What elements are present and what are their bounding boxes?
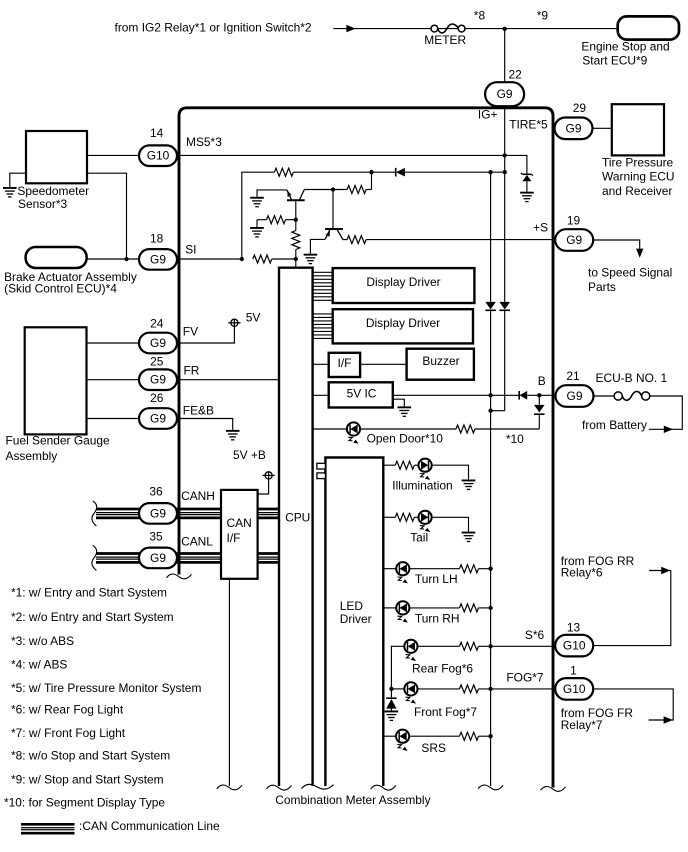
wire CAN I/F down to bottom break: [228, 579, 230, 786]
svg-text:TIRE*5: TIRE*5: [509, 117, 548, 131]
svg-text:+S: +S: [533, 221, 548, 235]
ground illumination: [462, 480, 476, 489]
svg-text:CANL: CANL: [181, 534, 213, 548]
svg-text:I/F: I/F: [338, 356, 352, 370]
svg-text:Sensor*3: Sensor*3: [18, 197, 67, 211]
resistor turn RH: [460, 604, 479, 612]
LED tail: [419, 511, 432, 532]
engine stop ECU box: [618, 16, 679, 39]
arrow from battery: [664, 426, 673, 433]
wire SI left riser to R1: [242, 172, 275, 259]
arrow to speed signal parts: [636, 249, 643, 258]
svg-text:Turn RH: Turn RH: [415, 611, 460, 625]
ribbon wires CPU to display driver 1: [313, 272, 333, 300]
wire turn LH row: [383, 568, 396, 570]
wire Q2 collector to +S resistor: [343, 239, 347, 241]
break CANH left: [92, 501, 97, 526]
wire R3 vertical leads: [295, 220, 297, 231]
LED illumination: [419, 459, 432, 480]
svg-text:19: 19: [567, 213, 581, 227]
CAN bus CANL: [96, 554, 279, 563]
svg-text:26: 26: [150, 391, 164, 405]
svg-text:1: 1: [570, 664, 577, 678]
svg-text:*3: w/o ABS: *3: w/o ABS: [11, 634, 74, 648]
svg-text:29: 29: [573, 101, 587, 115]
svg-text:25: 25: [150, 354, 164, 368]
node FOG*7: [488, 687, 492, 691]
wire CPU to I/F: [313, 363, 329, 365]
svg-text:Combination Meter Assembly: Combination Meter Assembly: [275, 793, 430, 807]
svg-text:*2: w/o Entry and Start System: *2: w/o Entry and Start System: [11, 610, 174, 624]
svg-text:35: 35: [149, 530, 163, 544]
LED turn LH: [396, 562, 409, 583]
brake actuator assembly box: [26, 247, 87, 268]
ground Q2 emitter: [304, 255, 318, 264]
wire 490 vertical: [490, 172, 492, 302]
node diode line x collector riser: [369, 170, 373, 174]
resistor R2: [267, 216, 286, 224]
ground tail: [462, 533, 476, 542]
resistor front fog: [460, 685, 479, 693]
svg-text:(Skid Control ECU)*4: (Skid Control ECU)*4: [4, 282, 117, 296]
arrow from FOG RR relay: [661, 567, 670, 574]
wire 5V +B to CAN I/F: [258, 472, 269, 494]
svg-text:Parts: Parts: [588, 280, 616, 294]
connector G9-24: [139, 333, 177, 354]
svg-text:18: 18: [150, 231, 164, 245]
wire fog RR relay to G10-13: [593, 571, 671, 646]
svg-text:Tail: Tail: [410, 530, 428, 544]
svg-text:FE&B: FE&B: [183, 404, 214, 418]
svg-text:13: 13: [567, 620, 581, 634]
break bottom CPU right + LED left edges: [302, 784, 334, 789]
node turn RH: [488, 606, 492, 610]
wire CPU to 5V IC: [313, 394, 329, 396]
svg-text:CANH: CANH: [181, 489, 215, 503]
ground R2: [250, 228, 264, 237]
transistor Q1: [287, 190, 305, 220]
svg-text:G9: G9: [150, 336, 166, 350]
wire FV: [87, 326, 235, 343]
fuse ECU-B NO.1: [614, 391, 650, 400]
svg-text:Front Fog*7: Front Fog*7: [414, 705, 477, 719]
resistor R3 vertical: [292, 231, 300, 250]
svg-text:Driver: Driver: [340, 612, 372, 626]
svg-text:Assembly: Assembly: [6, 449, 58, 463]
display driver box 1: [333, 268, 475, 303]
speedometer sensor box: [26, 131, 87, 183]
svg-text:Start ECU*9: Start ECU*9: [582, 53, 647, 67]
diode on B line pointing left: [519, 391, 527, 400]
ground front fog: [385, 711, 399, 720]
wire front fog diode branch: [390, 689, 392, 698]
svg-text:Illumination: Illumination: [392, 479, 452, 493]
svg-text:Fuel Sender Gauge: Fuel Sender Gauge: [6, 434, 111, 448]
svg-text:B: B: [538, 374, 546, 388]
resistor rear fog: [460, 642, 479, 650]
wire fuse to battery arrow: [649, 396, 683, 429]
connector G9-25: [139, 369, 177, 390]
wire speedometer lower to SI line: [87, 173, 127, 259]
svg-text:*7: w/ Front Fog Light: *7: w/ Front Fog Light: [11, 726, 126, 740]
CAN I/F box: [221, 490, 258, 579]
wire rear fog row: [391, 646, 404, 689]
svg-text:*10: for Segment Display Type: *10: for Segment Display Type: [4, 795, 165, 809]
break on main box right edge bottom: [541, 787, 566, 792]
resistor tail: [395, 513, 414, 521]
svg-text:to Speed Signal: to Speed Signal: [588, 266, 672, 280]
display driver box 2: [333, 309, 473, 343]
wire jog joining verticals: [491, 410, 505, 412]
svg-text:*5: w/ Tire Pressure Monitor S: *5: w/ Tire Pressure Monitor System: [11, 681, 201, 695]
5V +B supply symbol: [265, 472, 272, 479]
resistor open door: [456, 425, 475, 433]
svg-text:*9: *9: [537, 9, 549, 23]
node SI x left riser: [240, 257, 244, 261]
svg-text:Turn LH: Turn LH: [415, 572, 458, 586]
wire G10-1 to fog FR relay: [593, 689, 673, 720]
svg-text:G9: G9: [497, 87, 513, 101]
CAN bus CANH: [96, 509, 279, 518]
svg-text:*9: w/ Stop and Start System: *9: w/ Stop and Start System: [11, 772, 164, 786]
resistor turn LH: [460, 565, 479, 573]
break bottom LED driver right edge: [371, 785, 396, 790]
connector G9-26: [139, 408, 177, 429]
wire R1 to diode to IG+ vertical: [293, 171, 395, 173]
main box combination meter boundary: [179, 108, 553, 788]
svg-text:IG+: IG+: [478, 108, 498, 122]
svg-text:*8: w/o Stop and Start System: *8: w/o Stop and Start System: [11, 748, 170, 762]
connector G9-35: [139, 548, 177, 569]
I/F box: [329, 353, 360, 377]
diode down open door branch: [534, 405, 545, 414]
svg-text:from IG2 Relay*1 or Ignition S: from IG2 Relay*1 or Ignition Switch*2: [115, 20, 312, 34]
break bottom CPU left edge: [267, 785, 292, 790]
wire open door row: [313, 428, 347, 430]
svg-text:5V IC: 5V IC: [347, 386, 377, 400]
svg-text:Warning ECU: Warning ECU: [602, 170, 675, 184]
break bottom 490 vertical: [478, 785, 503, 790]
svg-text:5V +B: 5V +B: [233, 448, 266, 462]
break bottom CAN wire: [217, 785, 242, 790]
resistor illumination: [395, 461, 414, 469]
fuse METER: [431, 24, 465, 33]
node MS5 x IG+: [503, 153, 507, 157]
wire Q2 emitter to ground: [310, 239, 325, 253]
svg-text:FV: FV: [183, 325, 198, 339]
node S*6: [488, 644, 492, 648]
wire SRS row: [383, 735, 396, 737]
svg-text:G9: G9: [150, 412, 166, 426]
svg-text:FR: FR: [184, 363, 200, 377]
resistor Q1 collector: [347, 186, 366, 194]
svg-text:*1: w/ Entry and Start System: *1: w/ Entry and Start System: [11, 585, 167, 599]
node diode line x 490 vertical: [488, 170, 492, 174]
svg-text:Open Door*10: Open Door*10: [367, 431, 444, 445]
svg-text:*8: *8: [474, 9, 486, 23]
svg-text:G9: G9: [150, 252, 166, 266]
svg-text:CAN: CAN: [227, 516, 252, 530]
resistor Q2 +S: [347, 236, 366, 244]
ground zener: [520, 193, 534, 202]
wire speedometer to ground: [10, 173, 26, 187]
svg-text:22: 22: [509, 67, 523, 81]
connector G9-29: [555, 118, 593, 140]
ground 5V IC: [398, 407, 412, 416]
tire pressure warning ECU box: [612, 104, 664, 155]
wire Q1 collector line: [304, 189, 347, 191]
svg-text:Tire Pressure: Tire Pressure: [602, 155, 674, 169]
svg-text:G9: G9: [150, 506, 166, 520]
break CANL left: [92, 545, 97, 570]
arrow from FOG FR relay: [664, 716, 673, 723]
zener diode TIRE to ground: [521, 173, 533, 192]
wire turn RH row: [383, 607, 396, 609]
svg-text:36: 36: [149, 484, 163, 498]
wire from IG2 relay top line: [333, 28, 617, 30]
ground Q1 emitter: [250, 198, 264, 207]
connector G10-14: [139, 145, 177, 166]
svg-text:Speedometer: Speedometer: [17, 184, 89, 198]
svg-text:and Receiver: and Receiver: [602, 184, 672, 198]
wire speedometer to G10-14: [87, 154, 177, 156]
svg-text:G10: G10: [147, 149, 170, 163]
CPU box: [279, 268, 313, 786]
svg-text::CAN Communication Line: :CAN Communication Line: [79, 819, 220, 833]
wire 5V IC to ground: [393, 399, 405, 406]
svg-text:FOG*7: FOG*7: [506, 671, 544, 685]
transistor Q2: [325, 229, 343, 240]
node Q1 base: [294, 218, 298, 222]
wire front fog row: [391, 688, 404, 690]
wire IG+ vertical from top line to G9-22: [504, 29, 506, 84]
node Q1 collector: [331, 187, 335, 191]
connector G9-18: [139, 249, 177, 270]
svg-text:21: 21: [566, 369, 580, 383]
node diode line x IG+: [503, 170, 507, 174]
svg-text:ECU-B NO. 1: ECU-B NO. 1: [596, 371, 668, 385]
wire R4 to base node: [272, 258, 296, 260]
wire G9-21 to fuse ECU-B: [594, 395, 615, 397]
wire FE&B: [87, 419, 233, 430]
svg-text:Rear Fog*6: Rear Fog*6: [412, 661, 473, 675]
node SI x R3: [294, 257, 298, 261]
wire SI from brake actuator: [87, 258, 242, 260]
LED front fog: [404, 682, 417, 703]
wire FR: [87, 379, 280, 381]
svg-text:14: 14: [150, 126, 164, 140]
resistor R4 on SI line: [253, 255, 272, 263]
connector G10-13: [555, 635, 593, 657]
wire tail row: [383, 516, 395, 518]
svg-text:24: 24: [150, 317, 164, 331]
ground FE&B: [226, 431, 240, 440]
connector G9-19: [555, 229, 593, 251]
node jog junction: [488, 409, 492, 413]
svg-text:Display Driver: Display Driver: [366, 275, 440, 289]
svg-text:from Battery: from Battery: [582, 418, 647, 432]
svg-text:G9: G9: [150, 373, 166, 387]
wire B line 5V IC to G9-21: [393, 394, 519, 396]
LED SRS: [396, 730, 409, 751]
ribbon wires CPU to display driver 2: [313, 314, 333, 339]
wire open door diode branch: [538, 414, 540, 429]
svg-text:G10: G10: [563, 682, 586, 696]
LED driver box: [325, 458, 383, 787]
svg-text:S*6: S*6: [525, 628, 545, 642]
break on main box left edge: [167, 574, 192, 579]
svg-text:5V: 5V: [246, 310, 261, 324]
wire IG+ vertical lower: [504, 105, 506, 302]
LED rear fog: [404, 640, 417, 661]
LED driver input tab 2: [317, 473, 326, 479]
svg-text:Relay*7: Relay*7: [561, 718, 603, 732]
fuel sender gauge box: [25, 327, 87, 434]
connector G9-21: [556, 385, 594, 407]
5V IC box: [329, 382, 393, 407]
LED turn RH: [396, 601, 409, 622]
svg-text:G9: G9: [150, 551, 166, 565]
svg-text:Engine Stop and: Engine Stop and: [581, 40, 669, 54]
svg-text:CPU: CPU: [285, 511, 310, 525]
wire Q1 emitter to ground: [257, 190, 287, 197]
node top junction: [503, 27, 507, 31]
wire collector resistor to Q2 base: [332, 190, 334, 229]
connector G9-36: [139, 503, 177, 524]
svg-text:G9: G9: [566, 233, 582, 247]
svg-text:Relay*6: Relay*6: [561, 566, 603, 580]
resistor R1: [274, 168, 293, 176]
svg-text:*10: *10: [506, 432, 524, 446]
diode down on IG+ vertical: [499, 302, 510, 310]
svg-text:G9: G9: [566, 121, 582, 135]
wire Q1 base resistor R2 leads: [257, 219, 267, 221]
wire MS5 line to zener: [177, 155, 527, 174]
CAN communication line legend: [21, 824, 75, 833]
svg-text:SI: SI: [185, 242, 196, 256]
diode down on 490 vertical: [485, 302, 496, 310]
wire riser collector to diode line: [371, 172, 373, 189]
buzzer box: [407, 349, 474, 380]
diode up front fog: [386, 698, 396, 708]
LED driver input tab 1: [317, 463, 326, 469]
wire illumination row: [383, 464, 395, 466]
connector G10-1: [555, 678, 593, 700]
wire I/F to buzzer: [360, 363, 407, 365]
resistor SRS: [460, 732, 479, 740]
arrow on IG2 line: [346, 25, 355, 32]
svg-text:Display Driver: Display Driver: [366, 316, 440, 330]
svg-text:*6: w/ Rear Fog Light: *6: w/ Rear Fog Light: [11, 702, 124, 716]
diode D1 on R1 line pointing left: [396, 168, 405, 177]
svg-text:METER: METER: [424, 33, 466, 47]
svg-text:G9: G9: [567, 389, 583, 403]
svg-text:I/F: I/F: [227, 531, 241, 545]
svg-text:Buzzer: Buzzer: [422, 354, 459, 368]
svg-text:G10: G10: [563, 639, 586, 653]
node SI speedometer junction: [124, 257, 128, 261]
node front fog: [389, 687, 393, 691]
node B line x diode branch: [537, 393, 541, 397]
5V supply symbol FV: [231, 319, 238, 326]
svg-text:MS5*3: MS5*3: [186, 135, 222, 149]
svg-text:SRS: SRS: [421, 741, 446, 755]
wire G9-29 to tire pressure ECU: [593, 127, 612, 129]
svg-text:*4: w/ ABS: *4: w/ ABS: [11, 657, 67, 671]
node SRS: [488, 734, 492, 738]
wire G9-19 to speed signal arrow: [593, 240, 640, 252]
node turn LH: [488, 567, 492, 571]
LED open door: [347, 422, 360, 443]
connector G9-22: [485, 82, 524, 106]
wire +S line to box edge: [366, 239, 553, 241]
node B line x 490 vertical: [488, 393, 492, 397]
ground speedometer sensor: [3, 188, 17, 197]
svg-text:LED: LED: [340, 599, 364, 613]
